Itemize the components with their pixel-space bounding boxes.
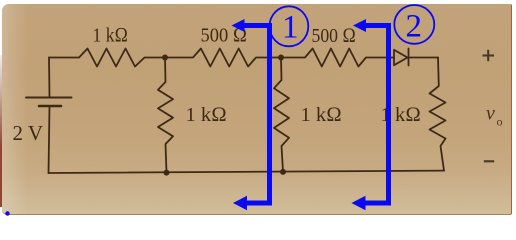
svg-text:1 kΩ: 1 kΩ xyxy=(186,104,227,126)
svg-text:1: 1 xyxy=(282,10,299,46)
svg-text:1 kΩ: 1 kΩ xyxy=(93,25,129,47)
svg-text:500 Ω: 500 Ω xyxy=(312,25,357,47)
svg-text:o: o xyxy=(497,115,503,129)
svg-text:1 kΩ: 1 kΩ xyxy=(301,104,342,126)
svg-text:2: 2 xyxy=(406,9,423,45)
svg-text:2 V: 2 V xyxy=(13,121,44,145)
svg-text:v: v xyxy=(486,103,495,125)
svg-text:kΩ: kΩ xyxy=(395,104,421,126)
